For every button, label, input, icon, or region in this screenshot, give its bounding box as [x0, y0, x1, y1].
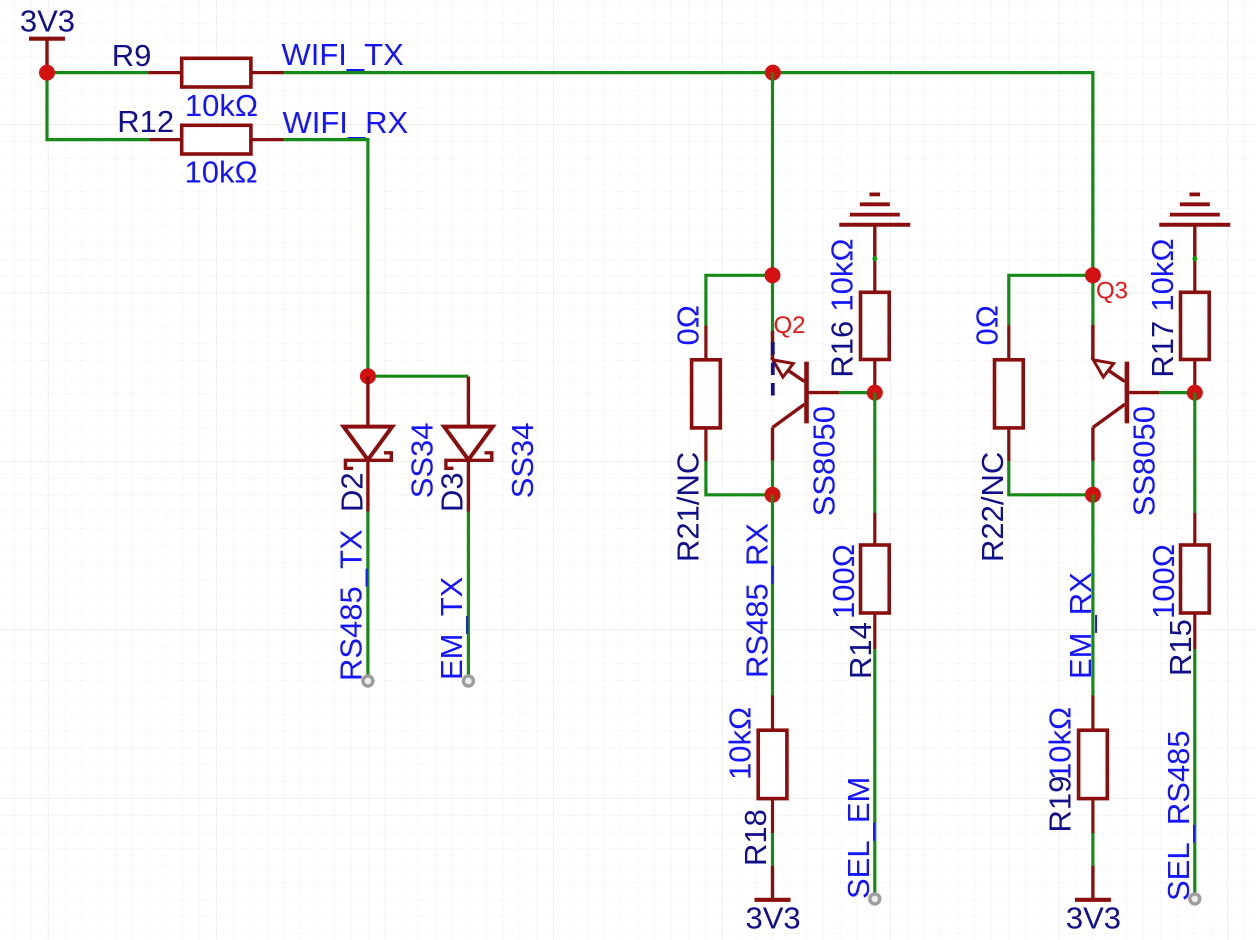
svg-text:3V3: 3V3	[1066, 901, 1121, 936]
wire R19 to 3V3 flag	[1091, 833, 1094, 866]
svg-text:EM_RX: EM_RX	[1063, 572, 1098, 679]
svg-text:Q2: Q2	[774, 312, 806, 339]
wire R18 to 3V3 flag	[771, 833, 774, 866]
svg-text:R14: R14	[843, 622, 878, 679]
diode D3	[435, 377, 493, 513]
power flag 3V3 bottom middle	[746, 866, 801, 936]
svg-text:SEL_RS485: SEL_RS485	[1161, 730, 1196, 901]
svg-text:SS8050: SS8050	[807, 406, 842, 516]
svg-text:0Ω: 0Ω	[671, 305, 706, 345]
resistor R9	[112, 38, 284, 87]
svg-text:3V3: 3V3	[746, 901, 801, 936]
wire 3V3 to R9	[47, 71, 148, 74]
wire Q2 column top	[771, 73, 774, 360]
svg-text:SS8050: SS8050	[1127, 406, 1162, 516]
svg-text:WIFI_RX: WIFI_RX	[283, 105, 409, 140]
diode D2	[334, 376, 392, 512]
wire WIFI_RX to diodes	[284, 140, 368, 377]
wire Q2 collector to R18	[771, 495, 774, 696]
svg-text:D3: D3	[435, 472, 470, 512]
wire Q3 column top	[1091, 73, 1094, 360]
wire R15 to SEL_RS485 port	[1193, 649, 1196, 894]
node WIFI_TX junction	[765, 65, 781, 81]
wire Q2 collector down	[771, 461, 774, 495]
wire D2 to RS485_TX port	[366, 512, 369, 677]
node Q3 emitter junction	[1085, 267, 1101, 283]
svg-text:R9: R9	[112, 38, 152, 73]
pin RS485_TX end	[363, 676, 373, 686]
wire R21 bottom branch	[706, 461, 773, 495]
resistor R12	[117, 104, 283, 154]
pin SEL_RS485 end	[1190, 894, 1200, 904]
svg-text:10kΩ: 10kΩ	[1145, 238, 1180, 311]
svg-text:100Ω: 100Ω	[1146, 544, 1181, 619]
svg-text:100Ω: 100Ω	[826, 544, 861, 619]
wire 3V3 down to R12 row	[47, 73, 149, 140]
node Q3 collector junction	[1085, 487, 1101, 503]
node Q3 base junction	[1187, 385, 1203, 401]
svg-text:R21/NC: R21/NC	[671, 452, 706, 562]
svg-text:RS485_TX: RS485_TX	[333, 529, 368, 681]
svg-text:SEL_EM: SEL_EM	[841, 777, 876, 899]
svg-text:R16: R16	[825, 321, 860, 378]
resistor R19	[1043, 696, 1108, 834]
svg-text:10kΩ: 10kΩ	[1043, 707, 1078, 780]
ground GND above R16	[839, 194, 910, 258]
svg-text:10kΩ: 10kΩ	[185, 154, 258, 189]
pin EM_TX end	[463, 676, 473, 686]
ground GND above R17	[1159, 194, 1230, 258]
wire branch to R22 top	[1009, 275, 1093, 325]
wire R14 to SEL_EM port	[873, 649, 876, 894]
svg-text:R22/NC: R22/NC	[975, 452, 1010, 562]
svg-text:10kΩ: 10kΩ	[722, 707, 757, 780]
wire branch to R21 top	[706, 275, 773, 325]
wire Q3 collector down	[1091, 461, 1094, 495]
transistor Q3	[1093, 278, 1160, 462]
node Q2 emitter junction	[765, 267, 781, 283]
node Q2 collector junction	[765, 487, 781, 503]
power flag 3V3 top-left	[20, 4, 75, 73]
power flag 3V3 bottom right	[1066, 866, 1121, 936]
svg-text:WIFI_TX: WIFI_TX	[282, 37, 405, 72]
node diode junction	[360, 368, 376, 384]
resistor R14	[843, 393, 889, 679]
svg-text:Q3: Q3	[1096, 278, 1128, 305]
node Q2 base junction	[867, 385, 883, 401]
resistor R15	[1163, 393, 1209, 676]
transistor Q2	[773, 312, 840, 461]
svg-text:0Ω: 0Ω	[970, 305, 1005, 345]
svg-text:R15: R15	[1163, 619, 1198, 676]
wire D3 to EM_TX port	[467, 512, 470, 677]
svg-text:10kΩ: 10kΩ	[185, 88, 258, 123]
svg-text:SS34: SS34	[505, 422, 540, 498]
svg-text:3V3: 3V3	[20, 4, 75, 39]
resistor R17	[1145, 256, 1209, 392]
svg-text:D2: D2	[334, 472, 369, 512]
wire WIFI_TX horizontal	[284, 73, 1093, 276]
wire Q2 base to R16 junction	[839, 391, 875, 394]
svg-text:EM_TX: EM_TX	[434, 576, 469, 680]
svg-text:10kΩ: 10kΩ	[825, 238, 860, 311]
svg-text:R17: R17	[1145, 321, 1180, 378]
wire Q3 collector to R19	[1091, 495, 1094, 696]
svg-text:R19: R19	[1043, 776, 1078, 833]
svg-text:RS485_RX: RS485_RX	[740, 523, 775, 678]
resistor R16	[825, 256, 890, 392]
resistor R22/NC	[975, 326, 1023, 563]
svg-text:R12: R12	[117, 104, 174, 139]
resistor R18	[738, 696, 787, 867]
node 3V3 junction	[39, 65, 55, 81]
svg-text:R18: R18	[738, 809, 773, 866]
wire diode junction to D3	[368, 375, 469, 378]
wire R22 bottom branch	[1009, 461, 1093, 495]
wire Q3 base to R17 junction	[1159, 391, 1194, 394]
resistor R21/NC	[671, 326, 721, 563]
pin SEL_EM end	[870, 894, 880, 904]
